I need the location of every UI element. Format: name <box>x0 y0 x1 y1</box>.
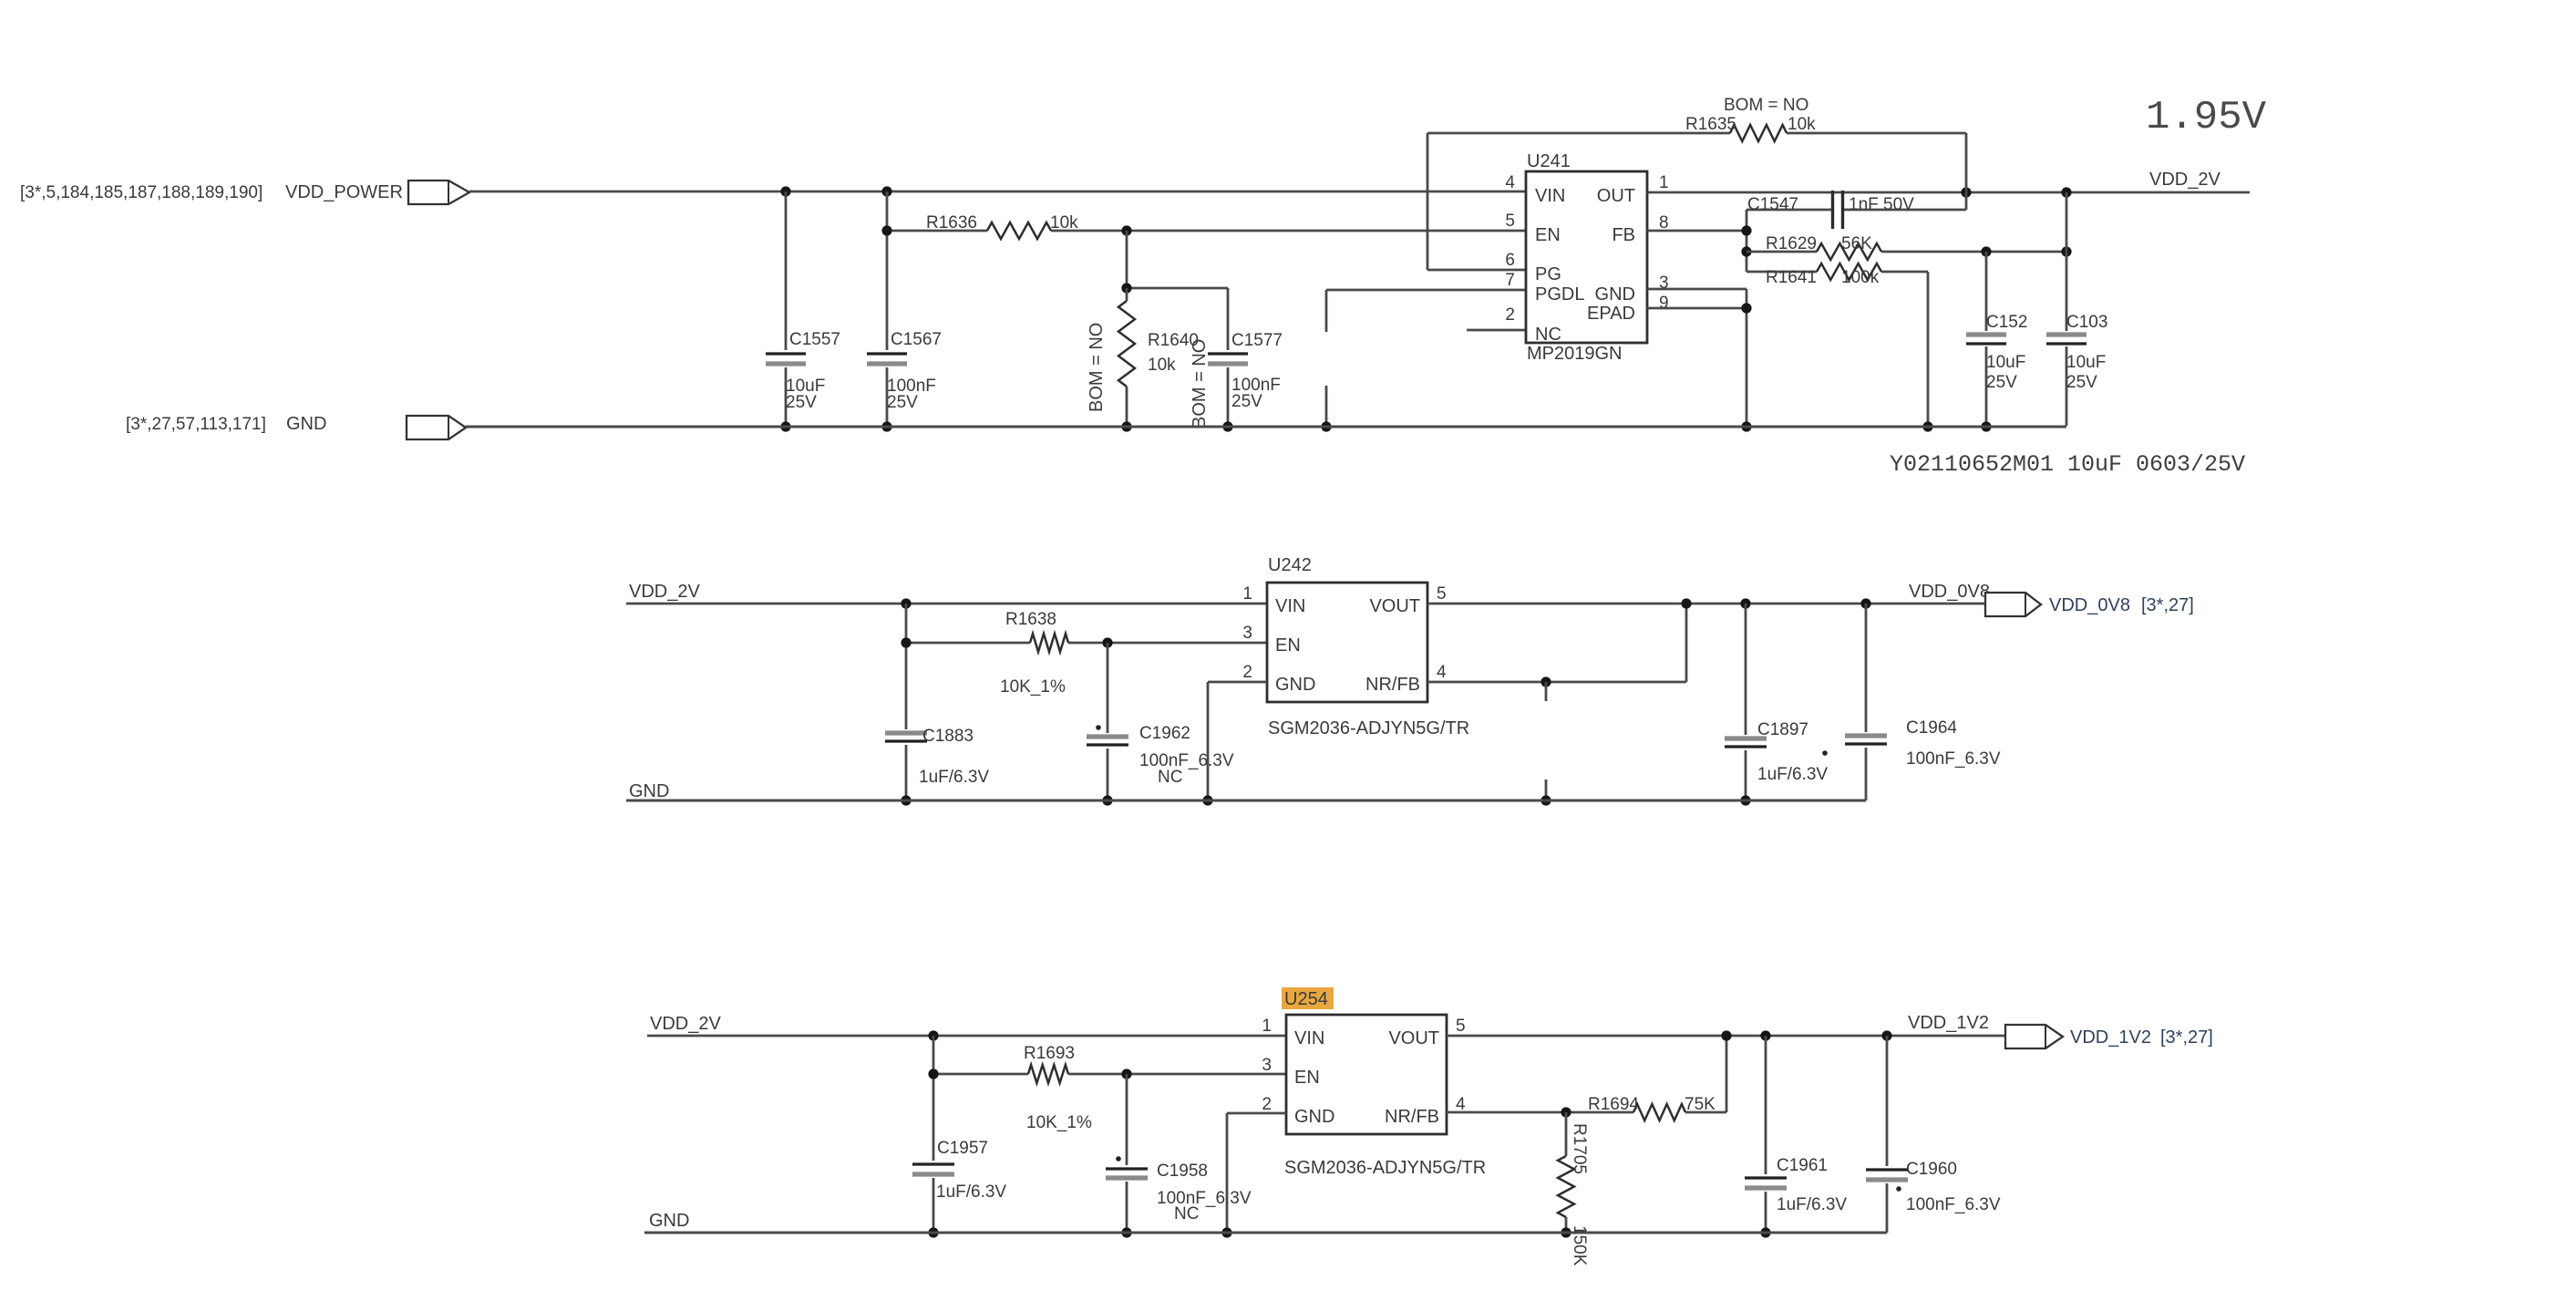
resistor R1638 10K 1% <box>1030 634 1068 652</box>
resistor R1641 100k <box>1747 271 1817 274</box>
svg-text:U254: U254 <box>1284 989 1328 1009</box>
capacitor C1567 <box>886 191 889 350</box>
wire NR/FB riser to VOUT <box>1685 604 1688 682</box>
svg-text:VDD_0V8: VDD_0V8 <box>2049 595 2130 615</box>
svg-text:C1964: C1964 <box>1906 718 1957 738</box>
node junction FB/R1629 <box>1741 246 1751 256</box>
node junction R1629/C103 <box>2061 246 2071 256</box>
svg-text:U242: U242 <box>1268 555 1312 575</box>
svg-text:[3*,27]: [3*,27] <box>2141 595 2194 615</box>
svg-text:NC: NC <box>1158 768 1182 787</box>
capacitor C1557 <box>785 191 788 350</box>
wire VDD_2V rail section3 <box>647 1035 1286 1038</box>
node junction EPAD <box>1741 303 1751 313</box>
capacitor C1961 1uF <box>1765 1036 1767 1174</box>
svg-text:GND: GND <box>1275 675 1315 695</box>
svg-text:EN: EN <box>1275 635 1301 656</box>
capacitor C1962 100nF NC <box>1107 643 1109 733</box>
svg-text:VDD_2V: VDD_2V <box>2149 170 2221 190</box>
svg-text:BOM = NO: BOM = NO <box>1190 339 1210 429</box>
svg-text:BOM = NO: BOM = NO <box>1724 96 1808 115</box>
svg-text:2: 2 <box>1242 663 1252 682</box>
wire R1694 riser to VOUT <box>1726 1036 1728 1112</box>
wire U254 GND pin to ground <box>1227 1112 1286 1115</box>
svg-text:C1962: C1962 <box>1139 724 1190 743</box>
svg-text:1: 1 <box>1659 173 1669 192</box>
svg-text:1uF/6.3V: 1uF/6.3V <box>919 768 989 787</box>
capacitor C1883 1uF <box>905 604 908 729</box>
wire PG riser from R1635 to pin 6 <box>1427 133 1429 270</box>
wire GND rail section2 <box>626 800 1866 802</box>
IC U254 SGM2036 highlighted <box>1282 987 1334 1009</box>
wire VDD_POWER rail <box>469 191 1526 193</box>
wire NR/FB net section2 <box>1427 681 1686 684</box>
node junction NR/FB <box>1540 676 1551 687</box>
svg-text:100nF_6.3V: 100nF_6.3V <box>1139 751 1234 770</box>
node junction R1629/C152 <box>1981 246 1991 256</box>
svg-text:VIN: VIN <box>1275 596 1305 616</box>
wire PGDL to GND broken <box>1326 289 1526 292</box>
svg-text:VOUT: VOUT <box>1388 1028 1439 1048</box>
capacitor C1897 1uF <box>1745 604 1747 735</box>
wire FB node column <box>1746 210 1748 272</box>
svg-text:EPAD: EPAD <box>1587 304 1635 324</box>
svg-text:[3*,5,184,185,187,188,189,190]: [3*,5,184,185,187,188,189,190] <box>20 183 263 202</box>
svg-text:10uF: 10uF <box>2066 353 2106 372</box>
svg-text:C1547: C1547 <box>1747 195 1798 214</box>
svg-text:4: 4 <box>1437 663 1447 682</box>
svg-text:R1641: R1641 <box>1766 268 1817 287</box>
svg-text:100nF_6.3V: 100nF_6.3V <box>1906 1195 2001 1214</box>
capacitor C1964 100nF <box>1865 604 1868 732</box>
svg-text:R1629: R1629 <box>1766 234 1817 253</box>
svg-text:100k: 100k <box>1841 268 1880 287</box>
capacitor C1957 1uF <box>933 1036 935 1161</box>
node junction FB <box>1741 225 1751 235</box>
svg-text:6: 6 <box>1505 251 1515 270</box>
svg-text:GND: GND <box>1294 1107 1334 1127</box>
svg-text:C1957: C1957 <box>937 1139 988 1158</box>
svg-text:FB: FB <box>1612 225 1635 245</box>
svg-text:25V: 25V <box>786 393 817 412</box>
node junction EN/C1958 <box>1121 1069 1131 1079</box>
svg-text:25V: 25V <box>887 393 918 412</box>
svg-text:VOUT: VOUT <box>1369 596 1420 616</box>
svg-text:C1567: C1567 <box>891 330 942 349</box>
svg-text:10k: 10k <box>1788 115 1816 134</box>
svg-text:VDD_2V: VDD_2V <box>650 1014 721 1034</box>
svg-text:9: 9 <box>1659 294 1669 313</box>
svg-text:1uF/6.3V: 1uF/6.3V <box>1777 1195 1847 1214</box>
wire GND rail section3 <box>644 1232 1887 1234</box>
resistor R1640 10k BOM=NO <box>1126 288 1128 301</box>
svg-text:VDD_1V2: VDD_1V2 <box>1908 1013 1989 1033</box>
svg-text:VDD_POWER: VDD_POWER <box>285 182 403 202</box>
svg-text:C1960: C1960 <box>1906 1160 1957 1179</box>
svg-text:C152: C152 <box>1986 313 2027 332</box>
svg-text:GND: GND <box>629 781 669 801</box>
svg-text:[3*,27,57,113,171]: [3*,27,57,113,171] <box>126 415 266 434</box>
svg-text:NC: NC <box>1535 325 1561 345</box>
svg-text:10k: 10k <box>1148 356 1176 375</box>
node junction C1557 top <box>780 186 790 196</box>
svg-text:MP2019GN: MP2019GN <box>1527 344 1623 364</box>
svg-text:VDD_1V2: VDD_1V2 <box>2070 1027 2151 1048</box>
svg-text:100nF_6.3V: 100nF_6.3V <box>1906 749 2001 769</box>
wire VDD_2V rail section2 <box>626 603 1267 605</box>
wire EN net section2 <box>906 642 1030 645</box>
svg-text:[3*,27]: [3*,27] <box>2160 1027 2213 1048</box>
wire EN net from C1567 to U241 <box>887 230 987 232</box>
wire VOUT rail VDD_0V8 <box>1427 603 1985 605</box>
resistor R1635 10k BOM=NO feedback <box>1427 132 1730 135</box>
node junction OUT/C103 <box>2061 187 2071 197</box>
node junction C1883 top <box>901 598 911 608</box>
capacitor C103 10uF 25V <box>2066 192 2068 331</box>
node junction C1957 top <box>928 1030 938 1040</box>
svg-text:10K_1%: 10K_1% <box>1026 1113 1092 1132</box>
svg-text:SGM2036-ADJYN5G/TR: SGM2036-ADJYN5G/TR <box>1268 718 1469 738</box>
svg-text:VDD_2V: VDD_2V <box>629 582 700 602</box>
svg-text:R1636: R1636 <box>926 213 977 232</box>
svg-text:10k: 10k <box>1050 213 1078 232</box>
svg-text:NR/FB: NR/FB <box>1385 1107 1439 1127</box>
wire GND rail section1 <box>466 426 2066 429</box>
svg-text:1nF 50V: 1nF 50V <box>1849 195 1914 214</box>
svg-text:GND: GND <box>1595 284 1635 305</box>
svg-text:10uF: 10uF <box>1986 353 2025 372</box>
wire NR/FB to GND broken <box>1545 682 1548 701</box>
svg-text:BOM = NO: BOM = NO <box>1087 323 1107 412</box>
resistor R1694 75K <box>1633 1104 1685 1120</box>
wire R1640/C1577 branch <box>1126 231 1128 288</box>
svg-text:GND: GND <box>286 414 326 434</box>
svg-text:1: 1 <box>1262 1017 1272 1036</box>
svg-text:100nF_6.3V: 100nF_6.3V <box>1157 1189 1252 1208</box>
node junction OUT/R1635 <box>1961 187 1971 197</box>
wire riser R1635 to OUT to C1547 <box>1965 133 1968 210</box>
resistor R1693 10K 1% <box>1028 1065 1068 1083</box>
svg-text:R1638: R1638 <box>1005 610 1056 629</box>
svg-text:C103: C103 <box>2066 313 2107 332</box>
svg-text:U241: U241 <box>1527 151 1571 171</box>
svg-text:C1883: C1883 <box>922 727 974 746</box>
svg-text:VIN: VIN <box>1535 186 1565 206</box>
wire FB pin 8 <box>1647 230 1747 232</box>
svg-text:7: 7 <box>1505 271 1515 290</box>
node junction EN/C1962 <box>1102 637 1112 647</box>
svg-text:5: 5 <box>1456 1017 1466 1036</box>
svg-text:5: 5 <box>1505 212 1515 231</box>
svg-text:OUT: OUT <box>1597 186 1635 206</box>
wire U241 GND EPAD to ground <box>1647 288 1747 291</box>
svg-text:1uF/6.3V: 1uF/6.3V <box>1757 765 1828 784</box>
wire VOUT rail VDD_1V2 <box>1447 1035 2005 1038</box>
svg-text:PG: PG <box>1535 264 1561 284</box>
svg-text:2: 2 <box>1505 305 1515 325</box>
svg-text:EN: EN <box>1294 1068 1320 1088</box>
wire OUT rail VDD_2V <box>1647 191 2250 194</box>
port VDD_0V8 <box>1985 593 2041 616</box>
svg-text:C1557: C1557 <box>789 330 840 349</box>
wire NC stub pin 2 <box>1467 329 1526 332</box>
resistor R1636 10k <box>987 222 1051 239</box>
svg-text:C1961: C1961 <box>1777 1156 1828 1175</box>
node junction C1567 top <box>881 186 891 196</box>
capacitor C152 10uF 25V <box>1985 252 1988 331</box>
resistor R1705 150K <box>1565 1112 1568 1156</box>
svg-text:C1897: C1897 <box>1757 720 1808 739</box>
svg-text:VDD_0V8: VDD_0V8 <box>1909 582 1990 602</box>
svg-text:EN: EN <box>1535 225 1561 245</box>
svg-text:NC: NC <box>1174 1204 1199 1224</box>
IC U241 MP2019GN <box>1526 171 1647 343</box>
resistor R1629 56K <box>1747 251 1817 253</box>
capacitor C1577 100nF BOM=NO <box>1227 288 1230 350</box>
svg-text:SGM2036-ADJYN5G/TR: SGM2036-ADJYN5G/TR <box>1284 1158 1486 1178</box>
svg-text:1uF/6.3V: 1uF/6.3V <box>936 1182 1006 1202</box>
svg-text:3: 3 <box>1242 624 1252 643</box>
svg-text:C1958: C1958 <box>1157 1162 1208 1181</box>
node junction EN branch <box>1121 225 1131 235</box>
wire EN net section3 <box>933 1073 1028 1076</box>
svg-text:Y02110652M01 10uF 0603/25V: Y02110652M01 10uF 0603/25V <box>1890 451 2245 478</box>
svg-text:VIN: VIN <box>1294 1028 1324 1048</box>
svg-text:25V: 25V <box>1986 373 2017 392</box>
svg-text:1: 1 <box>1242 584 1252 604</box>
svg-text:C1577: C1577 <box>1231 331 1283 350</box>
svg-text:4: 4 <box>1505 173 1515 192</box>
svg-text:R1693: R1693 <box>1024 1044 1075 1063</box>
svg-text:R1694: R1694 <box>1588 1095 1639 1114</box>
svg-text:R1635: R1635 <box>1685 115 1736 134</box>
svg-text:R1705: R1705 <box>1570 1123 1589 1174</box>
svg-text:25V: 25V <box>2066 373 2097 392</box>
capacitor C1547 1nF 50V <box>1747 209 1832 212</box>
svg-text:GND: GND <box>649 1211 689 1231</box>
svg-text:10K_1%: 10K_1% <box>1000 677 1066 697</box>
svg-text:56K: 56K <box>1841 234 1872 253</box>
port VDD_1V2 <box>2005 1025 2063 1048</box>
svg-text:3: 3 <box>1262 1056 1272 1075</box>
svg-text:NR/FB: NR/FB <box>1365 675 1420 695</box>
svg-text:75K: 75K <box>1685 1095 1716 1114</box>
svg-text:2: 2 <box>1262 1095 1272 1114</box>
wire U242 GND pin to ground <box>1208 681 1267 684</box>
IC U242 SGM2036 <box>1267 583 1427 702</box>
svg-text:PGDL: PGDL <box>1535 284 1584 305</box>
capacitor C1958 100nF NC <box>1126 1074 1128 1165</box>
wire NR/FB net section3 <box>1447 1111 1633 1114</box>
capacitor C1960 100nF <box>1886 1036 1889 1166</box>
node junction NR/FB R1705 <box>1561 1107 1571 1117</box>
svg-text:5: 5 <box>1437 584 1447 604</box>
svg-text:1.95V: 1.95V <box>2146 95 2267 140</box>
svg-text:25V: 25V <box>1231 392 1262 411</box>
